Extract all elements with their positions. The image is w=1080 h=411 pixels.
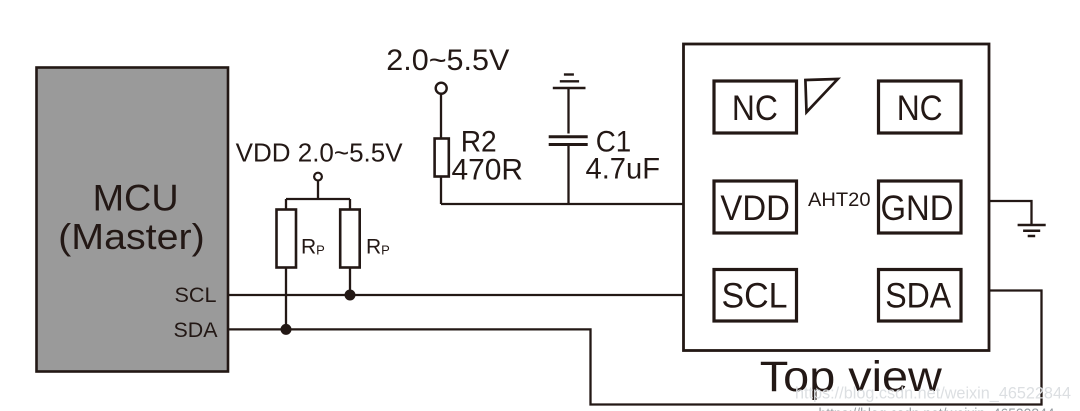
svg-text:GND: GND [881, 189, 954, 228]
svg-text:https://blog.csdn.net/weixin_4: https://blog.csdn.net/weixin_46522844 [795, 385, 1071, 403]
pin box NC (top left) [714, 81, 797, 133]
MCU U1 (Master) block [37, 68, 229, 372]
wire VDD rail to sensor [441, 203, 684, 205]
resistor RP2 (SCL pull-up) [340, 210, 360, 268]
svg-text:AHT20: AHT20 [808, 189, 871, 211]
svg-text:2.0~5.5V: 2.0~5.5V [386, 44, 509, 77]
pin box VDD [714, 181, 797, 233]
resistor RP1 (SDA pull-up) [277, 210, 297, 268]
pin box GND [879, 181, 962, 233]
svg-text:(Master): (Master) [58, 216, 205, 257]
node VDD terminal (pull-ups) [314, 173, 322, 181]
capacitor C1 [549, 137, 588, 145]
svg-text:MCU: MCU [93, 178, 179, 219]
svg-text:NC: NC [732, 89, 778, 128]
wire R2 top lead [440, 93, 442, 139]
pin box NC (top right) [879, 81, 962, 133]
AHT20 package outline (top view) [684, 44, 990, 351]
wire RP2 top lead [349, 199, 351, 210]
svg-text:SCL: SCL [175, 284, 217, 307]
svg-text:RP: RP [301, 236, 325, 259]
wire RP1 bottom lead to SDA [285, 268, 287, 330]
node supply terminal [436, 83, 447, 94]
svg-text:VDD: VDD [720, 189, 790, 228]
wire pull-up tops [286, 198, 350, 200]
ground (right of sensor) [1018, 225, 1046, 236]
wire C1 top lead [567, 89, 569, 134]
svg-text:SDA: SDA [885, 277, 952, 316]
resistor R2 [435, 139, 449, 177]
svg-text:SDA: SDA [174, 319, 218, 342]
wire SDA net (MCU to sensor, routed under) [228, 291, 1042, 405]
pin 1 marker triangle [805, 79, 837, 112]
pin box SDA [879, 270, 962, 322]
wire C1 bottom lead [567, 146, 569, 204]
svg-text:NC: NC [897, 89, 943, 128]
svg-text:SCL: SCL [722, 277, 788, 316]
svg-text:470R: 470R [452, 154, 524, 187]
svg-text:VDD 2.0~5.5V: VDD 2.0~5.5V [236, 139, 403, 167]
junction dot SCL / RP2 [345, 290, 356, 301]
pin box SCL [714, 270, 797, 322]
wire RP2 bottom lead to SCL [349, 268, 351, 296]
wire GND pin to ground [989, 201, 1032, 224]
wire RP1 top lead [285, 199, 287, 210]
junction dot SDA / RP1 [281, 324, 292, 335]
wire VDD stub [317, 181, 319, 199]
svg-text:https://blog.csdn.net/weixin_4: https://blog.csdn.net/weixin_46522844 [819, 406, 1055, 411]
ground (above C1, inverted) [553, 75, 586, 89]
svg-text:RP: RP [366, 236, 390, 259]
wire R2 bottom lead [440, 177, 442, 205]
wire SCL net (MCU to sensor) [228, 294, 684, 296]
svg-text:4.7uF: 4.7uF [586, 153, 661, 186]
